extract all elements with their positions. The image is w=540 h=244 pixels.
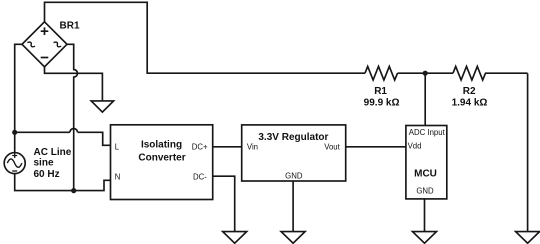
resistor R1 (365, 66, 397, 80)
svg-text:GND: GND (416, 187, 434, 196)
BR1 minus terminal mark (41, 57, 49, 59)
svg-text:R1: R1 (374, 86, 387, 97)
svg-text:N: N (115, 172, 121, 181)
node A junction dot R1/R2 (423, 71, 428, 76)
BR1 left ac tilde mark (27, 41, 35, 49)
svg-text:Vdd: Vdd (408, 142, 422, 151)
svg-text:GND: GND (285, 172, 303, 181)
ac source V1 circle (4, 153, 25, 174)
wire junction B to ac source top (14, 132, 16, 152)
wire BR1 right terminal down with hop over bottom wire (67, 44, 78, 190)
svg-text:AC Line: AC Line (34, 147, 72, 158)
svg-text:ADC Input: ADC Input (409, 128, 446, 137)
regulator U2 box (242, 125, 346, 181)
wire DC+ to regulator Vin (213, 146, 242, 148)
svg-text:Vout: Vout (324, 143, 340, 152)
svg-text:sine: sine (34, 158, 54, 169)
svg-text:DC+: DC+ (192, 143, 208, 152)
svg-text:BR1: BR1 (60, 21, 80, 32)
svg-text:Converter: Converter (138, 152, 185, 163)
svg-text:L: L (115, 142, 120, 151)
junction B dot (12, 130, 17, 135)
MCU U3 box (406, 126, 447, 199)
svg-text:MCU: MCU (414, 168, 437, 179)
wire R2 to right rail (485, 72, 528, 74)
ac source minus mark (12, 170, 17, 172)
wire BR1 minus output to ground (45, 67, 103, 101)
isolating converter U1 box (111, 125, 213, 200)
wire regulator GND to ground (292, 181, 294, 232)
ground regulator (281, 232, 305, 244)
wire Vout to MCU Vdd (346, 146, 406, 148)
svg-text:1.94 kΩ: 1.94 kΩ (452, 97, 488, 108)
svg-text:60 Hz: 60 Hz (34, 169, 60, 180)
junction dot N net / bridge right wire (71, 188, 76, 193)
svg-text:3.3V Regulator: 3.3V Regulator (258, 132, 328, 143)
ground BR1 minus (91, 101, 113, 112)
wire right rail down (527, 73, 529, 231)
svg-text:99.9 kΩ: 99.9 kΩ (364, 97, 400, 108)
ac source sine wave (7, 159, 22, 167)
svg-text:DC-: DC- (193, 172, 207, 181)
ground MCU (413, 232, 437, 244)
wire MCU GND to ground (424, 199, 426, 232)
ground right rail (516, 232, 540, 244)
wire N net: ac source bottom to converter N pin (15, 174, 111, 191)
wire L net: junction B to converter L pin with hop (15, 132, 111, 145)
wire node A to MCU ADC input (424, 73, 426, 125)
wire DC- to ground (213, 176, 235, 231)
bridge rectifier BR1 diamond (22, 22, 67, 67)
BR1 right ac tilde mark (54, 41, 62, 49)
wire BR1 left terminal to junction B (15, 44, 22, 132)
svg-text:Isolating: Isolating (141, 140, 182, 151)
resistor R2 (453, 66, 485, 80)
ac source plus mark (12, 153, 17, 158)
BR1 plus terminal mark (41, 27, 49, 35)
wire R1 to R2 (398, 72, 454, 74)
svg-text:Vin: Vin (247, 143, 258, 152)
wire hop arc on L net over vertical wire (70, 129, 78, 133)
ground DC- (223, 232, 247, 244)
svg-text:R2: R2 (463, 86, 476, 97)
wire top loop from BR1 + output to R1 (45, 2, 366, 73)
